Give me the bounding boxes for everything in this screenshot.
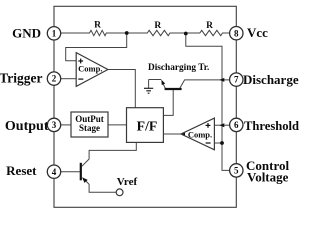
svg-text:3: 3 [52,120,57,130]
svg-text:Vcc: Vcc [247,25,268,40]
svg-text:Output: Output [5,119,49,134]
svg-text:Vref: Vref [117,176,138,188]
svg-text:Comp.: Comp. [78,64,102,74]
svg-text:Reset: Reset [6,163,37,178]
svg-text:R: R [154,21,161,31]
svg-text:8: 8 [234,28,239,38]
svg-text:4: 4 [52,167,57,177]
svg-text:1: 1 [52,28,57,38]
svg-text:Discharge: Discharge [243,72,299,87]
svg-text:R: R [94,21,101,31]
svg-text:R: R [206,21,213,31]
svg-text:Voltage: Voltage [247,169,289,184]
svg-text:F/F: F/F [137,119,158,134]
svg-text:7: 7 [234,75,239,85]
svg-text:Stage: Stage [79,123,100,133]
svg-text:Discharging Tr.: Discharging Tr. [148,63,209,73]
svg-text:2: 2 [52,74,57,84]
svg-text:Trigger: Trigger [0,71,43,86]
svg-text:6: 6 [234,120,239,130]
svg-text:5: 5 [234,166,239,176]
svg-text:Threshold: Threshold [244,119,299,133]
svg-text:Comp.: Comp. [188,130,212,140]
svg-text:GND: GND [12,26,41,41]
